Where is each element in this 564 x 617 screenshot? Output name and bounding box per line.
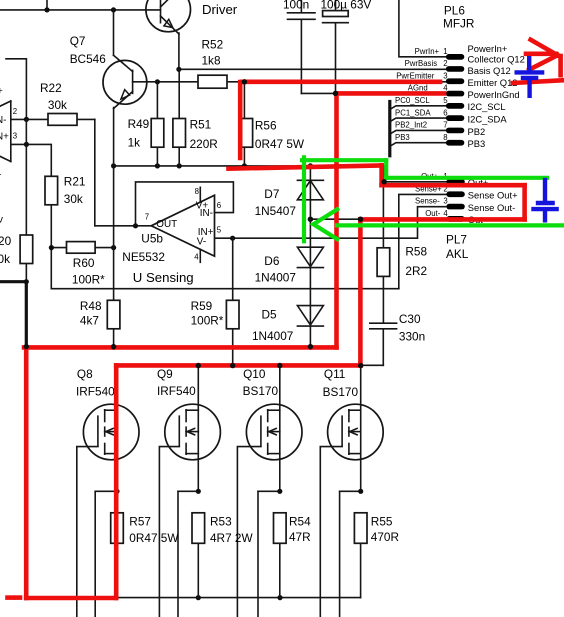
green trace top row xyxy=(302,158,386,162)
resistor R48 xyxy=(107,300,120,329)
wire R21 to R60 row xyxy=(51,205,399,289)
svg-text:1N4007: 1N4007 xyxy=(255,271,296,285)
resistor R58 xyxy=(377,248,390,277)
svg-text:470R: 470R xyxy=(371,530,399,544)
red rect bottom edge xyxy=(360,217,524,222)
svg-text:R55: R55 xyxy=(371,515,393,529)
bus I2C xyxy=(388,102,391,156)
wire 100u cap verticals xyxy=(335,0,337,11)
svg-text:8: 8 xyxy=(195,187,199,196)
resistor R52 xyxy=(198,75,227,88)
svg-text:Q10: Q10 xyxy=(243,367,266,381)
svg-text:330n: 330n xyxy=(399,329,425,343)
wire R59 vertical xyxy=(232,238,234,365)
svg-text:Basis Q12: Basis Q12 xyxy=(468,65,511,76)
svg-text:R58: R58 xyxy=(405,245,427,259)
wire Sense- row y238 xyxy=(215,207,447,239)
red trace emitter row right stub xyxy=(513,80,564,83)
svg-text:PwrEmitter: PwrEmitter xyxy=(396,71,435,80)
red rect top edge xyxy=(382,183,525,188)
svg-text:NE5532: NE5532 xyxy=(122,250,165,264)
svg-text:R56: R56 xyxy=(255,119,277,133)
svg-text:PL7: PL7 xyxy=(446,233,467,247)
svg-text:-: - xyxy=(0,170,1,181)
svg-text:PC1_SDA: PC1_SDA xyxy=(395,108,431,117)
svg-text:U5b: U5b xyxy=(141,231,163,245)
wire R22 right leg down xyxy=(94,119,96,225)
svg-text:100n: 100n xyxy=(283,0,309,11)
node D7 cathode xyxy=(308,163,313,168)
svg-text:4: 4 xyxy=(194,253,199,262)
svg-text:IN-: IN- xyxy=(200,208,213,219)
svg-text:MFJR: MFJR xyxy=(443,17,474,31)
svg-text:1N5407: 1N5407 xyxy=(255,204,296,218)
node R48 bottom rail xyxy=(111,345,116,350)
svg-text:Collector Q12: Collector Q12 xyxy=(468,53,525,64)
wire R60 row xyxy=(51,247,113,249)
svg-text:U Sensing: U Sensing xyxy=(133,270,194,285)
svg-text:R49: R49 xyxy=(128,117,150,131)
svg-text:PowerInGnd: PowerInGnd xyxy=(468,89,520,100)
wire U5a in+ row xyxy=(11,144,52,176)
wire R51 vertical xyxy=(178,69,180,166)
node R56 bottom xyxy=(242,163,247,168)
svg-text:C30: C30 xyxy=(399,312,421,326)
node R53 bottom xyxy=(196,595,201,600)
wire R57 bottom xyxy=(116,543,118,597)
svg-text:30k: 30k xyxy=(48,98,67,112)
resistor R21 xyxy=(45,176,58,205)
svg-text:Emitter Q12: Emitter Q12 xyxy=(468,77,518,88)
svg-text:Sense Out-: Sense Out- xyxy=(468,202,515,213)
resistor R49 xyxy=(151,119,164,148)
svg-text:5: 5 xyxy=(443,96,448,105)
svg-text:R51: R51 xyxy=(190,118,212,132)
svg-text:v: v xyxy=(0,215,3,226)
red trace Out- drop xyxy=(358,219,363,365)
green trace out+ row xyxy=(386,176,547,180)
red trace emitter row xyxy=(242,80,440,85)
svg-text:100R*: 100R* xyxy=(191,314,224,328)
red trace left vertical xyxy=(24,347,29,598)
transistor Q11 BS170 xyxy=(320,365,383,617)
node U5a pin2 xyxy=(24,117,29,122)
wire diode chain vertical xyxy=(309,166,311,347)
transistor Driver xyxy=(146,0,191,69)
wire R56 vertical xyxy=(243,82,245,166)
node R48 bottom (over red) xyxy=(111,344,116,349)
wire R53 bottom xyxy=(197,543,199,597)
svg-text:4R7 2W: 4R7 2W xyxy=(210,531,253,545)
svg-text:R53: R53 xyxy=(210,515,232,529)
svg-text:PB2: PB2 xyxy=(468,126,486,137)
svg-text:N+: N+ xyxy=(0,132,9,143)
node R54 bottom xyxy=(277,595,282,600)
red trace R56 side vertical xyxy=(238,82,243,158)
svg-text:D6: D6 xyxy=(264,254,280,268)
svg-text:D7: D7 xyxy=(264,187,279,201)
svg-text:3: 3 xyxy=(13,132,17,141)
svg-text:R60: R60 xyxy=(73,256,95,270)
svg-text:PB3: PB3 xyxy=(468,138,486,149)
svg-text:R52: R52 xyxy=(202,37,224,51)
svg-text:0R47 5W: 0R47 5W xyxy=(255,137,305,151)
node R56 top (over red) xyxy=(242,79,247,84)
node AGnd caps (over red) xyxy=(333,91,338,96)
svg-text:D5: D5 xyxy=(262,308,278,322)
op-amp U5a (clipped) xyxy=(0,101,11,162)
red trace AGnd drop xyxy=(334,93,339,347)
wire R58 C30 vertical xyxy=(382,182,384,322)
svg-text:PwrBasis: PwrBasis xyxy=(405,59,438,68)
red trace tilted y166 xyxy=(229,165,382,168)
resistor R60 xyxy=(67,242,96,254)
wire R54 bottom xyxy=(279,543,281,597)
svg-text:I2C_SDA: I2C_SDA xyxy=(468,113,508,124)
diode D6 1N4007 xyxy=(297,247,323,267)
transistor Q8 IRF540 xyxy=(77,365,139,617)
resistor R56 xyxy=(240,119,253,148)
resistor R59 xyxy=(226,300,239,329)
svg-text:2: 2 xyxy=(13,107,17,116)
red trace drain rail xyxy=(116,363,360,368)
top layer junction dots xyxy=(24,79,387,368)
svg-text:BC546: BC546 xyxy=(70,52,107,66)
svg-text:BS170: BS170 xyxy=(243,384,279,398)
node R59 bottom xyxy=(230,363,235,368)
svg-text:8: 8 xyxy=(443,133,447,142)
svg-text:3: 3 xyxy=(443,197,447,206)
wire AGnd drop x336 xyxy=(335,93,337,347)
green arrow shaft xyxy=(337,223,564,227)
diode D5 1N4007 xyxy=(297,306,323,327)
node D5 anode rail xyxy=(308,345,313,350)
resistor R53 xyxy=(192,513,205,544)
resistor R51 xyxy=(173,119,186,148)
transistor Q10 BS170 xyxy=(237,365,302,617)
svg-text:1k8: 1k8 xyxy=(202,54,221,68)
red trace Q8 drain vertical xyxy=(114,365,119,598)
resistor R22 xyxy=(48,114,77,126)
svg-text:R57: R57 xyxy=(129,515,151,529)
wire Q7 emitter long vertical xyxy=(113,108,115,348)
svg-text:220R: 220R xyxy=(190,137,218,151)
svg-text:R20: R20 xyxy=(0,234,12,248)
wire 100n cap verticals xyxy=(300,0,302,12)
red rect right edge xyxy=(522,185,527,219)
wire gnd rail y347 xyxy=(26,346,336,348)
red trace bend down to rect xyxy=(379,165,384,185)
svg-text:PL6: PL6 xyxy=(444,4,465,18)
svg-text:7: 7 xyxy=(145,213,149,222)
node R51 bottom xyxy=(177,163,182,168)
red arrow top right xyxy=(526,40,561,75)
node Q7 base xyxy=(155,79,160,84)
resistor R20 xyxy=(20,235,33,264)
red dash bottom left xyxy=(8,595,13,600)
svg-text:BS170: BS170 xyxy=(323,385,359,399)
node D5 anode (over red) xyxy=(308,344,313,349)
capacitor 100n xyxy=(288,13,316,19)
svg-text:2: 2 xyxy=(443,59,447,68)
svg-text:30k: 30k xyxy=(0,252,10,266)
blue battery 2 xyxy=(531,178,559,223)
node Q11 drain xyxy=(358,363,363,368)
svg-text:PB2_Int2: PB2_Int2 xyxy=(395,121,427,130)
svg-text:100R*: 100R* xyxy=(72,273,105,287)
red trace bottom row xyxy=(26,596,116,601)
svg-text:R54: R54 xyxy=(289,515,311,529)
svg-text:5: 5 xyxy=(217,226,222,235)
svg-text:R22: R22 xyxy=(40,81,62,95)
svg-text:0R47 5W: 0R47 5W xyxy=(129,531,179,545)
node gnd rail corner (over red) xyxy=(24,344,29,349)
green arrow head xyxy=(313,209,337,239)
svg-text:2R2: 2R2 xyxy=(405,264,427,278)
node R56 top xyxy=(242,79,247,84)
wire U5a in- row xyxy=(11,118,95,120)
wire I2C_SDA xyxy=(390,118,446,122)
svg-text:4: 4 xyxy=(443,209,448,218)
svg-text:7: 7 xyxy=(443,121,447,130)
node R60 left xyxy=(49,245,54,250)
wire Out- y219 xyxy=(310,218,446,220)
node Out- bend xyxy=(358,217,363,222)
node R60 right xyxy=(111,245,116,250)
svg-text:I2C_SCL: I2C_SCL xyxy=(468,101,506,112)
wire PwrBasis y69 xyxy=(179,68,446,70)
node Q9 drain (over red) xyxy=(196,363,201,368)
node diode chain y219 xyxy=(308,217,313,222)
node Q10 drain (over red) xyxy=(277,363,282,368)
wire Out+ net y166 xyxy=(114,166,447,182)
wire I2C_SCL xyxy=(390,106,446,110)
wire AGnd y93 xyxy=(301,92,446,94)
node R49 bottom xyxy=(155,163,160,168)
wire source rail y598 xyxy=(26,597,360,599)
svg-text:IRF540: IRF540 xyxy=(157,384,196,398)
svg-text:PC0_SCL: PC0_SCL xyxy=(395,96,430,105)
wire U5a feedback xyxy=(6,59,26,120)
wire PB2_Int2 xyxy=(390,130,446,134)
svg-text:Driver: Driver xyxy=(202,2,238,17)
svg-text:1k: 1k xyxy=(128,135,141,149)
svg-text:AKL: AKL xyxy=(446,247,469,261)
node driver emitter xyxy=(176,67,181,72)
red trace AGnd row xyxy=(337,91,445,96)
svg-text:4k7: 4k7 xyxy=(80,314,99,328)
node emitter line y166 xyxy=(111,163,116,168)
green trace left vertical xyxy=(302,157,306,241)
resistor R55 xyxy=(354,513,367,544)
node diode chain y219 (over red) xyxy=(308,217,313,222)
node AGnd caps xyxy=(333,91,338,96)
node Q9 drain xyxy=(196,363,201,368)
green trace bend xyxy=(384,160,388,178)
svg-text:47R: 47R xyxy=(289,530,311,544)
connector PL7 pins xyxy=(446,179,464,222)
svg-text:OUT: OUT xyxy=(156,219,177,230)
wire PwrEmitter y82 xyxy=(157,81,446,83)
wire R20 branch vertical xyxy=(25,119,27,281)
wire R55 bottom leg xyxy=(360,543,362,597)
node Q11 drain (over red) xyxy=(358,363,363,368)
diode D7 1N5407 xyxy=(297,180,323,200)
node R20 bottom xyxy=(24,279,29,284)
red trace gnd rail xyxy=(24,345,337,350)
wire top rail y10 xyxy=(0,9,161,11)
svg-text:100µ 63V: 100µ 63V xyxy=(321,0,372,11)
wire drain rail y365 xyxy=(117,364,383,366)
wire PB3 xyxy=(390,143,446,147)
node Out+ R58 tap (over red) xyxy=(382,179,387,184)
svg-text:Q8: Q8 xyxy=(77,367,93,381)
node U5a pin3 xyxy=(24,142,29,147)
wire Out- drop x360 xyxy=(360,219,362,365)
transistor Q7 BC546 xyxy=(103,10,157,109)
svg-text:3: 3 xyxy=(443,71,447,80)
capacitor C30 xyxy=(370,323,397,329)
svg-text:PB3: PB3 xyxy=(395,133,410,142)
node top rail / Q7 collector xyxy=(111,7,116,12)
svg-text:Q7: Q7 xyxy=(70,34,86,48)
svg-text:Sense-: Sense- xyxy=(415,197,440,206)
svg-text:V-: V- xyxy=(197,236,206,247)
node Q10 drain xyxy=(277,363,282,368)
svg-text:Q11: Q11 xyxy=(324,367,345,381)
node Out- bend (over red) xyxy=(358,217,363,222)
svg-text:+: + xyxy=(0,86,3,97)
wire thick main left xyxy=(0,280,26,283)
capacitor 100u 63V xyxy=(323,11,349,23)
wire R49 vertical xyxy=(156,82,158,166)
svg-text:R59: R59 xyxy=(191,299,213,313)
wire Sense+ pin2 xyxy=(399,194,447,288)
svg-text:IRF540: IRF540 xyxy=(76,385,115,399)
svg-text:6: 6 xyxy=(217,201,221,210)
svg-text:1N4007: 1N4007 xyxy=(252,329,293,343)
svg-text:30k: 30k xyxy=(64,192,83,206)
svg-text:Sense Out+: Sense Out+ xyxy=(468,190,518,201)
node U5b pin5 xyxy=(230,236,235,241)
node R59 bottom (over red) xyxy=(230,363,235,368)
resistor R54 xyxy=(274,513,287,544)
svg-text:6: 6 xyxy=(443,108,447,117)
op-amp U5b NE5532 xyxy=(95,182,234,262)
wire PwrIn+ pin1 xyxy=(399,0,446,57)
svg-text:1: 1 xyxy=(443,47,447,56)
wire stub up at x47 xyxy=(46,0,48,10)
svg-text:Out-: Out- xyxy=(425,209,441,218)
blue battery 1 xyxy=(515,56,545,98)
svg-text:N-: N- xyxy=(0,115,6,126)
node Out+ / R58 tap xyxy=(382,179,387,184)
svg-text:PwrIn+: PwrIn+ xyxy=(415,47,440,56)
svg-text:R21: R21 xyxy=(64,174,86,188)
svg-text:R48: R48 xyxy=(80,299,102,313)
resistor R57 xyxy=(111,513,124,544)
transistor Q9 IRF540 xyxy=(159,365,220,617)
node top rail / stub xyxy=(44,7,49,12)
connector PL6 pins xyxy=(446,54,464,146)
svg-text:Q9: Q9 xyxy=(157,367,173,381)
